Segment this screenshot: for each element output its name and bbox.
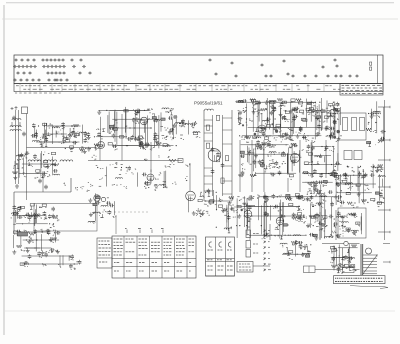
svg-text:P9055a/19/61: P9055a/19/61 xyxy=(194,101,223,106)
